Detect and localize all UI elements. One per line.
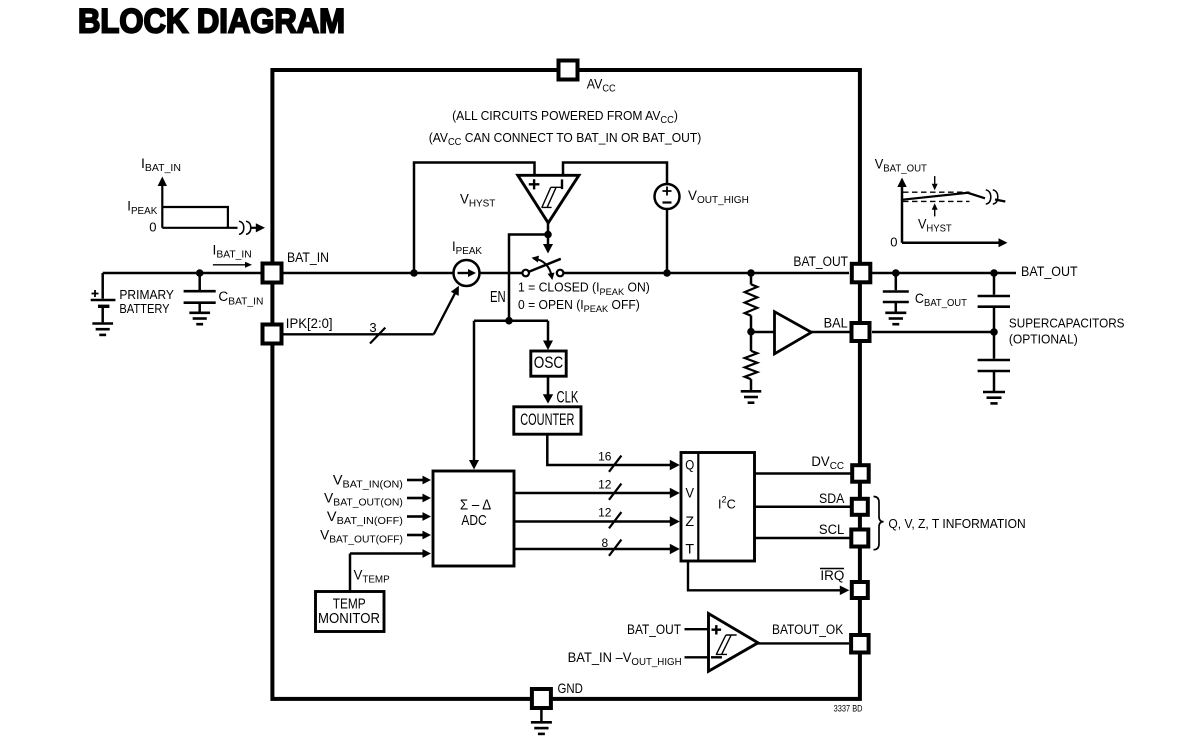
svg-text:SDA: SDA (819, 490, 844, 506)
svg-text:GND: GND (558, 680, 583, 696)
svg-text:ADC: ADC (461, 512, 486, 528)
svg-text:CLK: CLK (557, 387, 579, 406)
svg-text:Q, V, Z, T INFORMATION: Q, V, Z, T INFORMATION (888, 517, 1025, 532)
svg-text:IPK[2:0]: IPK[2:0] (286, 315, 333, 330)
svg-text:MONITOR: MONITOR (318, 609, 380, 626)
svg-text:BAT_OUT: BAT_OUT (1021, 263, 1078, 279)
svg-text:T: T (685, 542, 694, 558)
svg-text:I2​C: I2​C (718, 494, 736, 511)
svg-text:(OPTIONAL): (OPTIONAL) (1009, 332, 1078, 347)
svg-text:SCL: SCL (819, 522, 845, 538)
svg-text:V: V (685, 485, 694, 501)
svg-text:1 = CLOSED (IPEAK​ ON): 1 = CLOSED (IPEAK​ ON) (518, 281, 650, 297)
svg-text:Q: Q (685, 456, 694, 472)
svg-text:Σ – Δ: Σ – Δ (460, 496, 491, 513)
svg-text:BLOCK DIAGRAM: BLOCK DIAGRAM (78, 3, 345, 41)
svg-text:12: 12 (598, 505, 612, 519)
svg-text:PRIMARY: PRIMARY (119, 287, 174, 302)
svg-text:BAT_IN: BAT_IN (287, 249, 329, 265)
svg-text:0 = OPEN (IPEAK​ OFF): 0 = OPEN (IPEAK​ OFF) (518, 298, 640, 314)
svg-text:COUNTER: COUNTER (520, 410, 574, 429)
svg-text:12: 12 (598, 478, 612, 492)
svg-text:3337 BD: 3337 BD (834, 703, 863, 714)
svg-text:Z: Z (685, 514, 694, 530)
svg-text:BAT_OUT: BAT_OUT (627, 621, 681, 637)
svg-text:16: 16 (598, 450, 612, 464)
svg-text:0: 0 (890, 235, 897, 250)
svg-text:8: 8 (601, 536, 608, 550)
svg-text:0: 0 (149, 219, 156, 234)
svg-text:EN: EN (490, 287, 506, 305)
svg-text:IRQ: IRQ (820, 568, 844, 583)
svg-text:BAT_OUT: BAT_OUT (793, 253, 848, 269)
svg-text:BATOUT_OK: BATOUT_OK (772, 621, 843, 637)
svg-text:OSC: OSC (534, 354, 564, 372)
svg-text:BATTERY: BATTERY (119, 301, 169, 316)
svg-text:3: 3 (369, 320, 376, 335)
svg-text:BAL: BAL (824, 315, 848, 331)
svg-text:SUPERCAPACITORS: SUPERCAPACITORS (1009, 316, 1125, 331)
